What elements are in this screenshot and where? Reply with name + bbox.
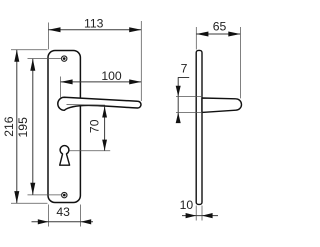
dimension 70	[88, 106, 108, 150]
dimension 10	[180, 198, 218, 221]
svg-text:7: 7	[181, 62, 188, 76]
side plate bar	[196, 50, 202, 204]
svg-text:195: 195	[16, 117, 30, 138]
lever handle front view	[58, 97, 141, 110]
svg-text:216: 216	[2, 116, 16, 137]
lever handle side view	[202, 98, 242, 112]
dimension 216	[2, 50, 47, 204]
dimension 65	[196, 20, 240, 99]
svg-text:43: 43	[56, 205, 70, 219]
dimension 43	[32, 205, 94, 227]
keyhole	[60, 146, 70, 166]
svg-text:113: 113	[84, 16, 104, 30]
dimension 195	[16, 59, 61, 195]
bottom screw hole	[62, 192, 67, 197]
extension line keyhole right	[69, 150, 110, 152]
front plate	[48, 51, 80, 203]
dimension 113	[48, 16, 141, 101]
dimension 7	[176, 62, 203, 124]
svg-text:65: 65	[213, 20, 227, 34]
svg-text:70: 70	[88, 119, 102, 133]
top screw hole	[61, 56, 66, 61]
svg-text:10: 10	[180, 198, 194, 212]
svg-text:100: 100	[101, 69, 122, 83]
dimension 100	[61, 69, 142, 98]
